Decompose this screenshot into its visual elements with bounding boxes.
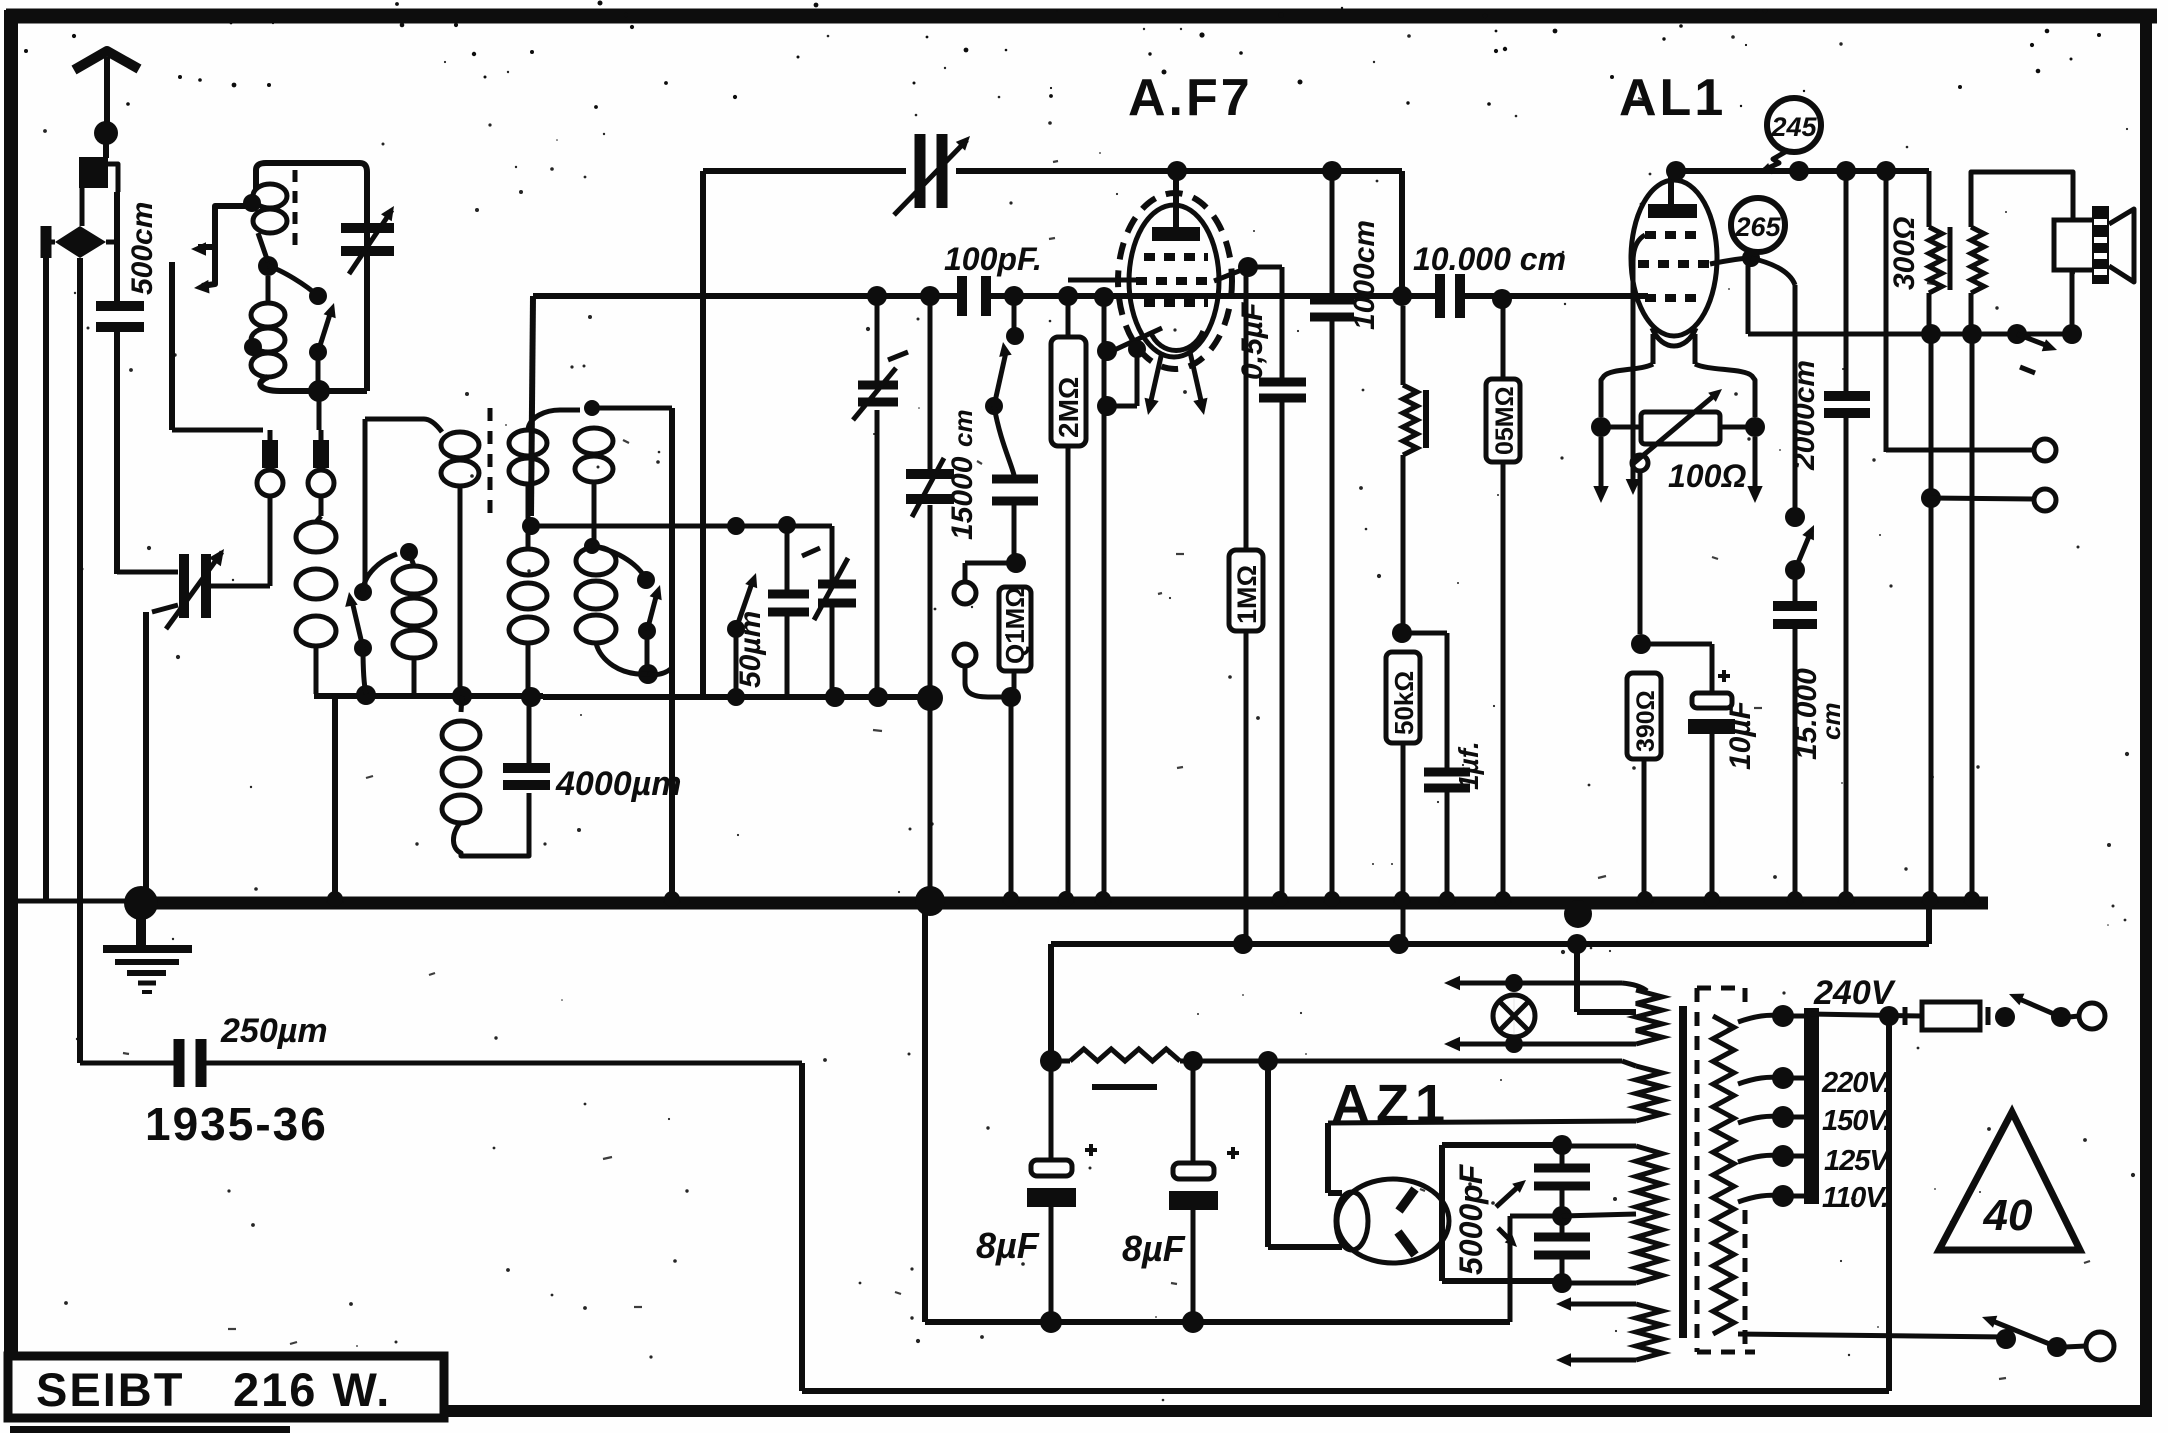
svg-text:05MΩ: 05MΩ bbox=[1491, 386, 1519, 455]
svg-text:8µF: 8µF bbox=[976, 1225, 1040, 1266]
svg-text:50µm: 50µm bbox=[734, 611, 767, 688]
svg-text:390Ω: 390Ω bbox=[1632, 690, 1660, 752]
svg-text:1935-36: 1935-36 bbox=[145, 1098, 328, 1150]
svg-text:216 W.: 216 W. bbox=[233, 1363, 391, 1416]
svg-text:15000: 15000 bbox=[946, 456, 979, 540]
svg-text:AL1: AL1 bbox=[1619, 69, 1726, 127]
svg-text:Q1MΩ: Q1MΩ bbox=[1000, 587, 1030, 664]
svg-text:5000pF: 5000pF bbox=[1453, 1163, 1489, 1275]
svg-text:2MΩ: 2MΩ bbox=[1053, 377, 1084, 438]
svg-text:300Ω: 300Ω bbox=[1888, 217, 1921, 290]
svg-text:0,5µF: 0,5µF bbox=[1236, 302, 1269, 380]
svg-text:250µm: 250µm bbox=[220, 1012, 328, 1050]
svg-text:10µF: 10µF bbox=[1724, 700, 1757, 770]
svg-text:A.F7: A.F7 bbox=[1128, 69, 1253, 127]
svg-text:1µf.: 1µf. bbox=[1453, 741, 1484, 790]
svg-text:cm: cm bbox=[1816, 702, 1846, 740]
svg-text:8µF: 8µF bbox=[1122, 1228, 1186, 1269]
svg-text:150V.: 150V. bbox=[1822, 1105, 1890, 1137]
svg-text:125V.: 125V. bbox=[1824, 1145, 1892, 1177]
svg-text:50kΩ: 50kΩ bbox=[1389, 671, 1419, 735]
svg-text:2000cm: 2000cm bbox=[1788, 360, 1821, 471]
svg-text:4000µm: 4000µm bbox=[555, 765, 681, 803]
svg-text:40: 40 bbox=[1983, 1191, 2033, 1240]
svg-text:1000cm: 1000cm bbox=[1348, 220, 1381, 330]
svg-text:SEIBT: SEIBT bbox=[36, 1363, 184, 1416]
svg-text:cm: cm bbox=[948, 409, 978, 447]
svg-text:10.000 cm: 10.000 cm bbox=[1413, 241, 1566, 277]
svg-text:245: 245 bbox=[1770, 112, 1817, 142]
svg-text:1MΩ: 1MΩ bbox=[1232, 565, 1262, 624]
svg-text:100Ω: 100Ω bbox=[1668, 458, 1746, 494]
svg-text:220V.: 220V. bbox=[1821, 1067, 1890, 1099]
svg-text:100pF.: 100pF. bbox=[944, 241, 1042, 277]
svg-text:265: 265 bbox=[1734, 212, 1781, 242]
svg-text:500cm: 500cm bbox=[126, 202, 159, 295]
svg-text:240V: 240V bbox=[1813, 974, 1897, 1012]
svg-text:110V.: 110V. bbox=[1822, 1182, 1888, 1214]
